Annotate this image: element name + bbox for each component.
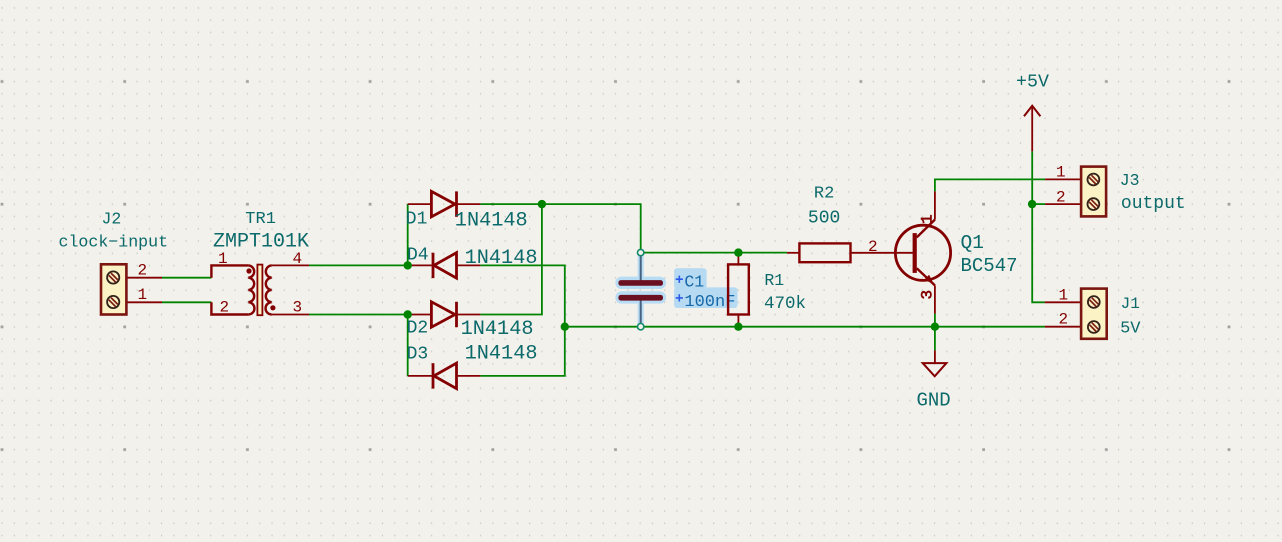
svg-text:3: 3 xyxy=(919,290,937,300)
svg-text:Q1: Q1 xyxy=(961,232,984,254)
svg-text:D1: D1 xyxy=(406,209,428,229)
svg-text:1: 1 xyxy=(1056,164,1066,182)
svg-text:TR1: TR1 xyxy=(245,210,276,229)
svg-text:500: 500 xyxy=(808,209,840,229)
svg-text:2: 2 xyxy=(868,238,878,256)
svg-text:ZMPT101K: ZMPT101K xyxy=(213,231,309,254)
svg-text:D2: D2 xyxy=(407,318,429,338)
svg-text:2: 2 xyxy=(1056,189,1066,207)
svg-text:470k: 470k xyxy=(764,294,806,314)
svg-text:1N4148: 1N4148 xyxy=(465,343,538,366)
svg-text:1: 1 xyxy=(919,214,937,224)
svg-text:5V: 5V xyxy=(1120,320,1141,339)
svg-text:+5V: +5V xyxy=(1016,73,1049,93)
svg-text:2: 2 xyxy=(1059,311,1069,329)
svg-text:1: 1 xyxy=(138,286,148,304)
svg-text:D3: D3 xyxy=(407,345,429,365)
svg-text:R2: R2 xyxy=(814,184,834,203)
svg-text:1: 1 xyxy=(1059,286,1069,304)
svg-text:C1: C1 xyxy=(684,273,704,292)
svg-text:J3: J3 xyxy=(1120,171,1140,190)
svg-text:clock−input: clock−input xyxy=(59,233,169,252)
svg-text:J1: J1 xyxy=(1121,295,1140,313)
svg-text:2: 2 xyxy=(138,262,148,280)
svg-text:output: output xyxy=(1121,194,1186,214)
svg-text:1N4148: 1N4148 xyxy=(461,318,534,341)
svg-text:2: 2 xyxy=(220,299,230,317)
svg-text:1N4148: 1N4148 xyxy=(465,247,538,270)
svg-text:3: 3 xyxy=(293,299,303,317)
svg-text:R1: R1 xyxy=(764,271,784,290)
svg-text:1N4148: 1N4148 xyxy=(455,209,528,232)
svg-text:BC547: BC547 xyxy=(961,255,1018,277)
svg-text:J2: J2 xyxy=(102,210,122,229)
svg-text:GND: GND xyxy=(917,390,951,412)
